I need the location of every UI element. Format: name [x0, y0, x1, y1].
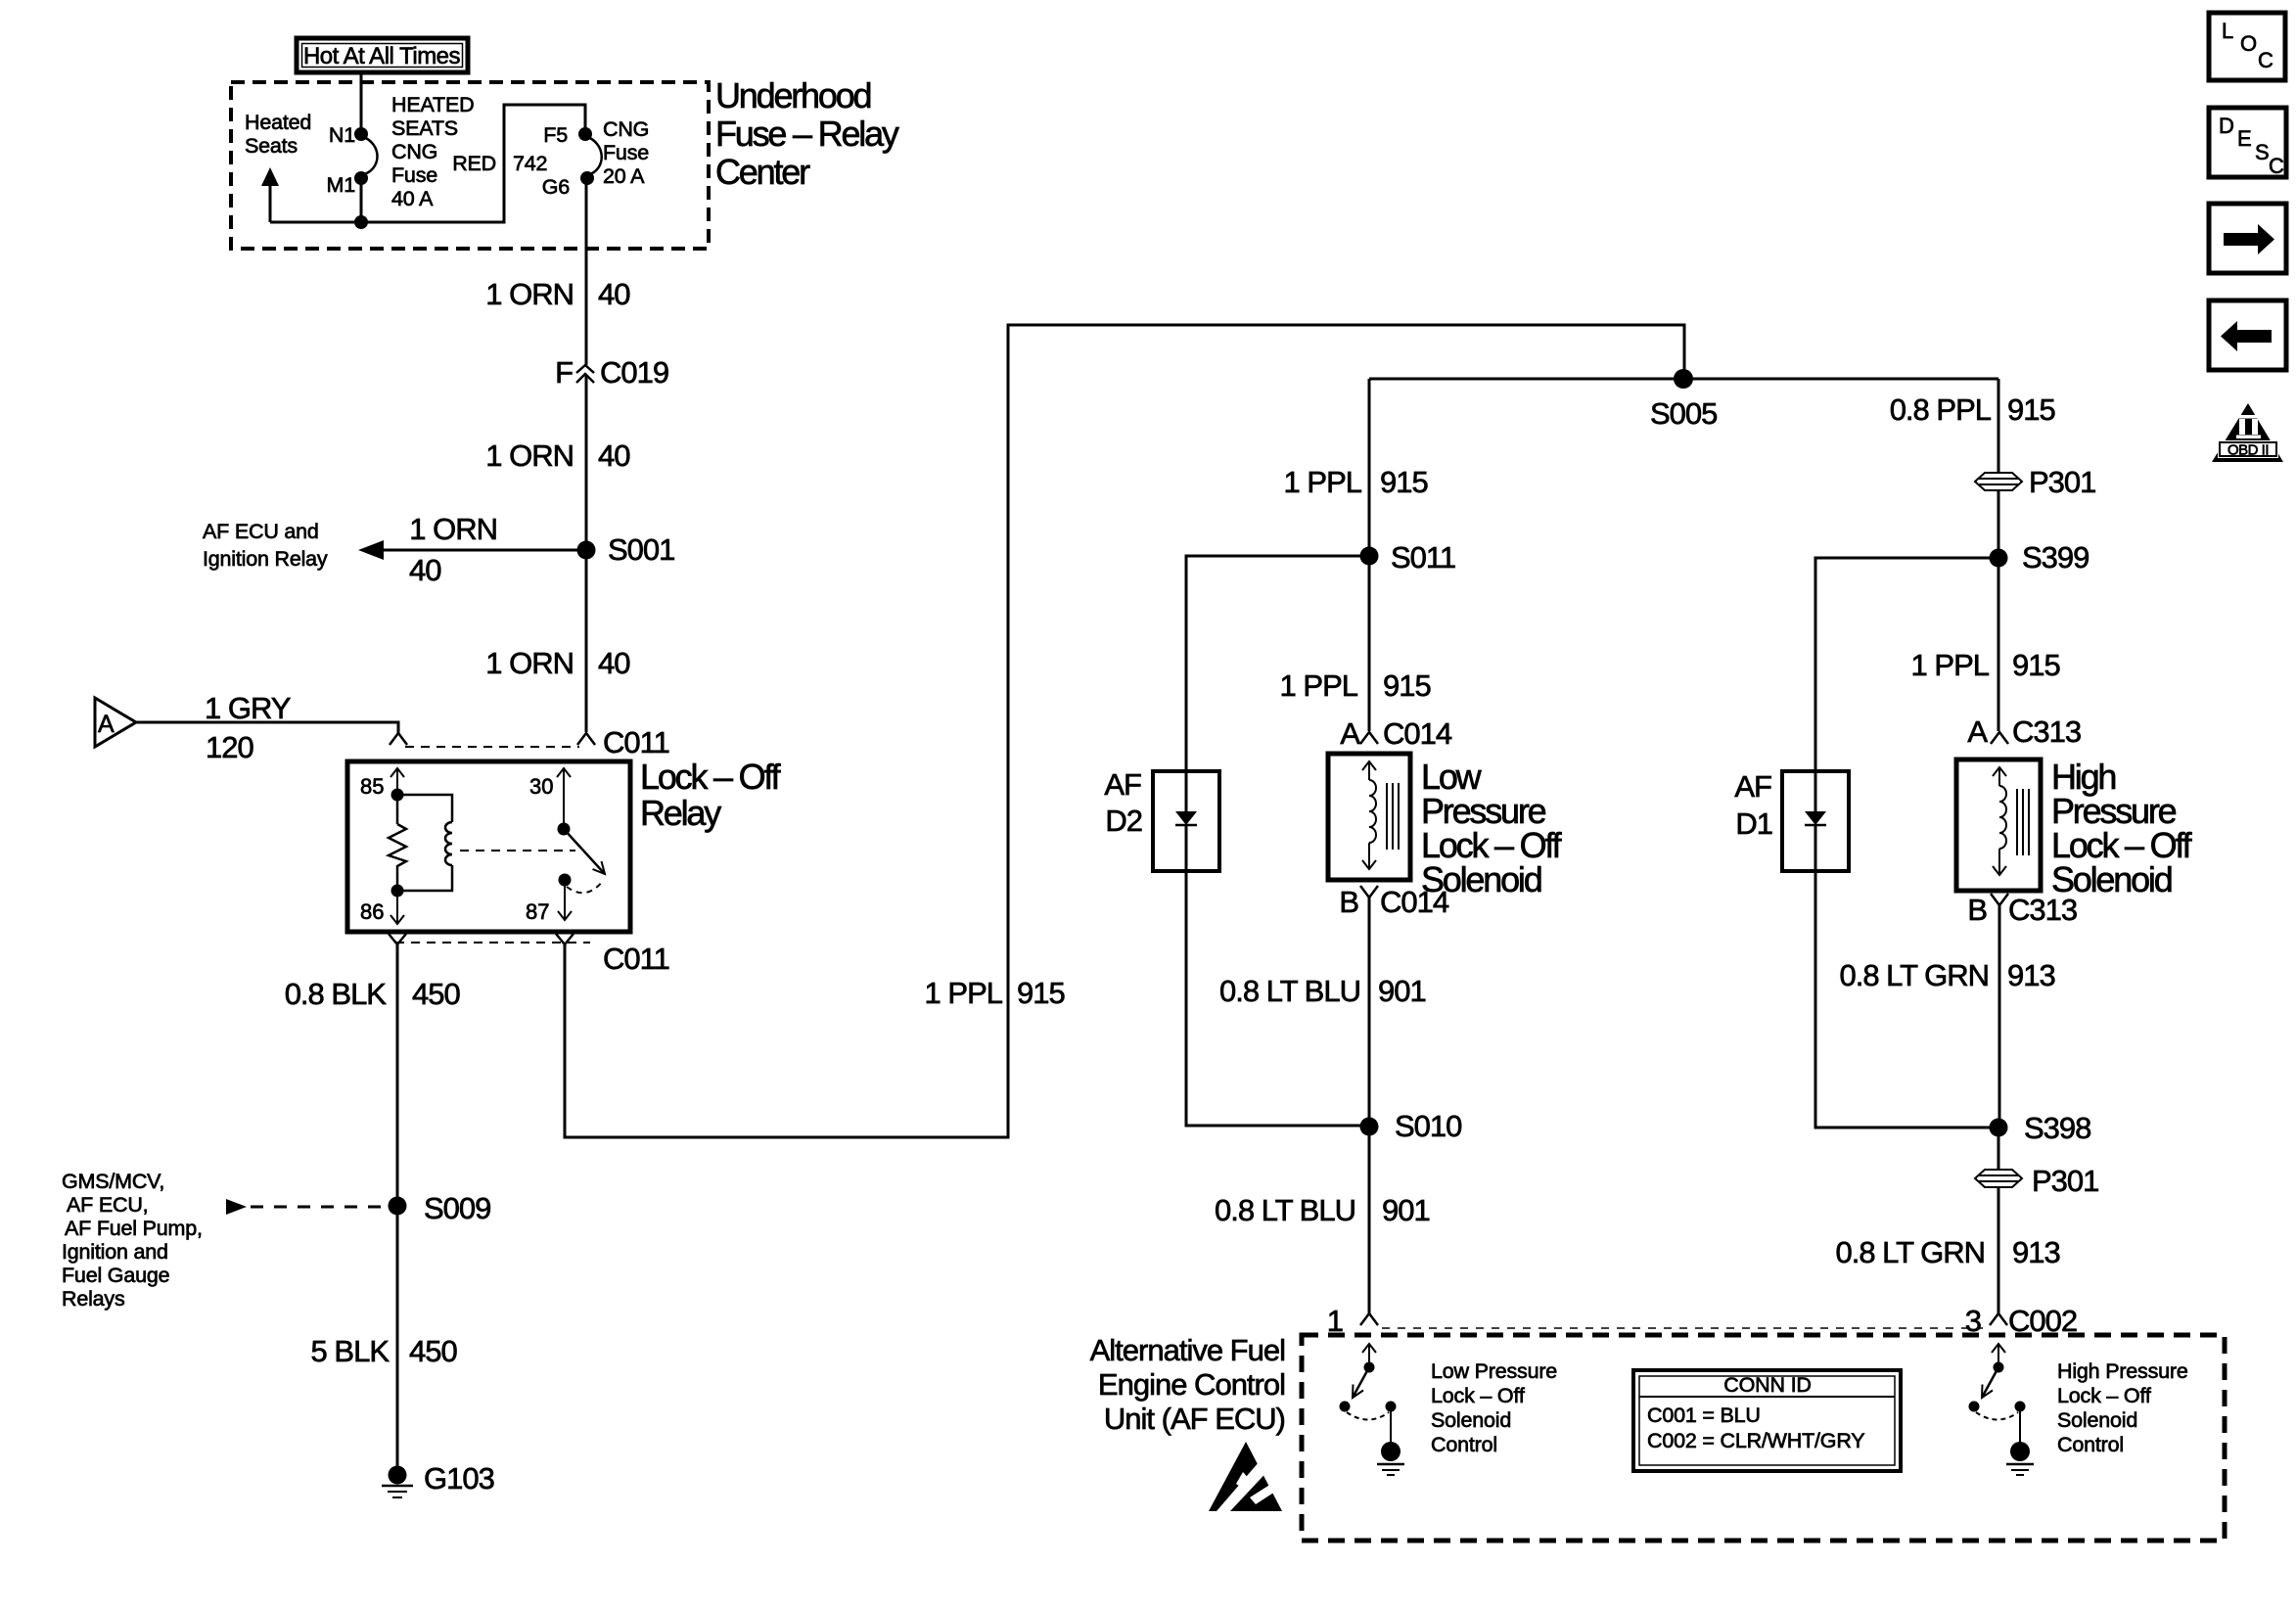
svg-text:Low Pressure: Low Pressure — [1431, 1359, 1557, 1383]
Low Pressure Lock-Off Solenoid label — [1421, 757, 1563, 899]
fuse HEATED SEATS CNG 40A (N1-M1) — [354, 127, 378, 185]
ground G103 — [382, 1461, 494, 1497]
svg-text:AF ECU and: AF ECU and — [203, 520, 319, 543]
wire label 1 PPL 915 (above C313) — [1911, 648, 2060, 682]
fuse CNG 20A (F5-G6) — [578, 127, 602, 185]
svg-text:GMS/MCV,: GMS/MCV, — [62, 1170, 164, 1193]
svg-text:Relay: Relay — [640, 793, 721, 833]
svg-text:CONN ID: CONN ID — [1723, 1373, 1811, 1397]
relay mechanical link (dashed) — [460, 850, 575, 852]
svg-text:RED: RED — [452, 152, 496, 175]
svg-text:Ignition and: Ignition and — [62, 1240, 168, 1264]
wire S005 to S011 — [1368, 379, 1371, 556]
AF ECU and Ignition Relay destination label — [203, 520, 328, 571]
svg-text:D1: D1 — [1735, 806, 1772, 841]
svg-text:G103: G103 — [424, 1461, 494, 1496]
svg-text:1 ORN: 1 ORN — [485, 646, 574, 680]
svg-text:C019: C019 — [600, 355, 668, 390]
node A reference triangle — [95, 698, 136, 747]
svg-text:AF: AF — [1734, 769, 1771, 804]
Lock-Off Relay box — [347, 761, 630, 932]
pass-through grommet P301 (lower) — [1975, 1164, 2098, 1198]
svg-text:B: B — [1339, 885, 1358, 919]
wire label 1 ORN / 40 (branch) — [409, 512, 497, 587]
diode D2 (AF) — [1104, 767, 1219, 871]
svg-text:CNG: CNG — [391, 140, 437, 163]
svg-text:915: 915 — [2007, 392, 2055, 427]
wire label 1 PPL 915 (above C014) — [1280, 668, 1431, 703]
svg-text:0.8 LT BLU: 0.8 LT BLU — [1215, 1193, 1355, 1227]
svg-text:Heated: Heated — [245, 111, 311, 134]
dashed branch wire into S009 — [226, 1199, 386, 1215]
svg-text:Lock – Off: Lock – Off — [2057, 1384, 2151, 1407]
svg-text:0.8 LT GRN: 0.8 LT GRN — [1835, 1235, 1985, 1269]
svg-text:Solenoid: Solenoid — [1431, 1408, 1511, 1432]
wire S005 bus (to S011 drop and S399 drop) — [1369, 378, 1998, 381]
splice S010 — [1360, 1109, 1463, 1143]
wire label 0.8 BLK 450 — [285, 977, 461, 1011]
Low Pressure Lock-Off Solenoid Control switch (AF ECU internal) — [1340, 1344, 1405, 1475]
svg-text:F5: F5 — [543, 123, 568, 147]
connector plane dashed line (C001/C002) — [1382, 1327, 1983, 1329]
svg-text:P301: P301 — [2029, 465, 2095, 499]
svg-text:S: S — [2255, 140, 2270, 164]
svg-text:P301: P301 — [2032, 1164, 2098, 1198]
svg-text:20 A: 20 A — [603, 164, 645, 188]
wire M1 down to bus — [360, 178, 363, 222]
High Pressure Lock-Off Solenoid Control label — [2057, 1359, 2188, 1456]
svg-text:Solenoid: Solenoid — [2057, 1408, 2137, 1432]
svg-text:0.8 LT GRN: 0.8 LT GRN — [1839, 958, 1989, 992]
svg-text:S009: S009 — [424, 1191, 490, 1225]
HEATED SEATS CNG Fuse 40 A value label — [391, 93, 474, 210]
svg-text:C001 = BLU: C001 = BLU — [1647, 1404, 1761, 1427]
wire P301 down to S399 — [1998, 490, 2000, 558]
Heated Seats label — [245, 111, 311, 158]
DESC navigation icon — [2209, 108, 2286, 178]
Underhood Fuse-Relay Center dashed box — [231, 82, 709, 249]
wire C313 B down to S398 (0.8 LT GRN 913) — [1998, 905, 2001, 1128]
svg-text:M1: M1 — [327, 173, 355, 197]
svg-text:Lock – Off: Lock – Off — [1431, 1384, 1525, 1407]
svg-text:87: 87 — [526, 899, 549, 924]
svg-text:915: 915 — [1017, 976, 1065, 1010]
svg-text:Ignition Relay: Ignition Relay — [203, 547, 328, 571]
svg-text:F: F — [555, 355, 573, 390]
splice S005 — [1650, 369, 1717, 431]
svg-text:AF Fuel Pump,: AF Fuel Pump, — [65, 1217, 203, 1240]
svg-text:Alternative Fuel: Alternative Fuel — [1090, 1333, 1285, 1367]
svg-text:30: 30 — [529, 774, 553, 799]
Low Pressure Lock-Off Solenoid coil — [1328, 754, 1410, 880]
wire label 0.8 LT GRN 913 (above S398) — [1839, 958, 2054, 992]
back arrow icon — [2209, 300, 2286, 370]
svg-text:Fuel Gauge: Fuel Gauge — [62, 1264, 169, 1287]
High Pressure Lock-Off Solenoid label — [2051, 757, 2193, 899]
pass-through grommet P301 (upper) — [1975, 465, 2095, 499]
connector C011 (top, pin 85 feed) — [390, 733, 407, 745]
svg-text:450: 450 — [412, 977, 460, 1011]
relay pin 85 — [360, 768, 404, 802]
svg-text:Underhood: Underhood — [715, 75, 871, 115]
wire label 5 BLK 450 — [311, 1334, 458, 1368]
svg-text:0.8 BLK: 0.8 BLK — [285, 977, 388, 1011]
svg-text:901: 901 — [1378, 974, 1426, 1008]
wire label 1 PPL 915 (above S011) — [1284, 465, 1428, 499]
svg-text:D: D — [2219, 114, 2234, 138]
wire C014 B down to S010 (0.8 LT BLU 901) — [1368, 898, 1371, 1127]
svg-text:0.8 PPL: 0.8 PPL — [1890, 392, 1992, 427]
relay pin 87 contact — [526, 874, 603, 925]
Hot At All Times feed box — [297, 38, 468, 72]
Alternative Fuel Engine Control Unit label — [1090, 1333, 1285, 1436]
svg-text:915: 915 — [2012, 648, 2060, 682]
bus wire from heated seats arrow to RED 742 riser — [270, 105, 585, 222]
svg-text:OBD II: OBD II — [2227, 442, 2269, 459]
connector C014 pin A — [1340, 716, 1452, 751]
svg-text:5 BLK: 5 BLK — [311, 1334, 390, 1368]
svg-text:Lock – Off: Lock – Off — [640, 757, 782, 797]
connector C011 (top, pin 30 feed) — [577, 725, 669, 759]
wire label 0.8 PPL 915 — [1890, 392, 2055, 427]
svg-text:C014: C014 — [1383, 716, 1452, 751]
wire S001 down to C011 — [585, 550, 588, 732]
wire label RED 742 — [452, 152, 547, 175]
wire label 1 GRY / 120 — [205, 691, 291, 764]
svg-text:1 PPL: 1 PPL — [925, 976, 1003, 1010]
svg-text:A: A — [1340, 716, 1360, 751]
splice S398 — [1990, 1111, 2091, 1145]
svg-text:1 ORN: 1 ORN — [485, 438, 574, 473]
svg-text:915: 915 — [1383, 668, 1431, 703]
wire label 1 ORN 40 (above C019) — [485, 277, 630, 311]
svg-text:Control: Control — [2057, 1433, 2124, 1456]
svg-text:Unit (AF ECU): Unit (AF ECU) — [1104, 1402, 1285, 1436]
svg-text:40: 40 — [598, 438, 630, 473]
connector C313 pin B — [1967, 893, 2077, 927]
svg-text:C002 = CLR/WHT/GRY: C002 = CLR/WHT/GRY — [1647, 1429, 1864, 1452]
wire S399 branch to diode D1 — [1815, 558, 1998, 771]
wire D2 down to S010 — [1186, 871, 1368, 1126]
svg-text:742: 742 — [513, 152, 547, 175]
CONN ID table — [1633, 1370, 1901, 1471]
wire S011 down to C014 A — [1368, 556, 1371, 731]
Underhood Fuse-Relay Center label — [715, 75, 899, 192]
connector C014 pin B — [1339, 885, 1449, 919]
svg-text:40: 40 — [598, 277, 630, 311]
svg-text:86: 86 — [360, 899, 384, 924]
AF ECU dashed box — [1302, 1335, 2225, 1541]
relay connector face dashed line (top) — [405, 746, 579, 748]
svg-text:S399: S399 — [2022, 540, 2089, 575]
wire label 0.8 LT BLU 901 (above S010) — [1219, 974, 1426, 1008]
svg-text:Fuse – Relay: Fuse – Relay — [715, 114, 899, 154]
svg-text:Seats: Seats — [245, 134, 298, 158]
wire label 0.8 LT GRN 913 (below P301) — [1835, 1235, 2059, 1269]
wire C011 pin87 route to S005 (1 PPL 915) — [565, 325, 1684, 1137]
svg-text:450: 450 — [409, 1334, 457, 1368]
svg-text:SEATS: SEATS — [391, 116, 458, 140]
svg-text:Fuse: Fuse — [391, 163, 437, 187]
wire label 0.8 LT BLU 901 (below S010) — [1215, 1193, 1430, 1227]
wire from node A to C011 (1 GRY 120) — [136, 722, 398, 734]
wire G6 down to C019 (1 ORN 40) — [585, 178, 588, 365]
svg-text:40 A: 40 A — [391, 187, 434, 210]
svg-text:O: O — [2240, 31, 2257, 56]
svg-text:40: 40 — [409, 553, 441, 587]
svg-text:S005: S005 — [1650, 396, 1717, 431]
ESD sensitivity symbol — [1209, 1442, 1282, 1511]
connector C011 (bottom, pin 87) — [556, 934, 669, 976]
Lock-Off Relay label — [640, 757, 782, 833]
svg-text:913: 913 — [2012, 1235, 2060, 1269]
wire S010 down to C001 (0.8 LT BLU 901) — [1368, 1127, 1371, 1313]
CNG Fuse 20 A value label — [603, 117, 649, 188]
svg-text:0.8 LT BLU: 0.8 LT BLU — [1219, 974, 1360, 1008]
svg-text:HEATED: HEATED — [391, 93, 474, 116]
wire P301 down to C002 (0.8 LT GRN 913) — [1998, 1187, 2000, 1313]
svg-text:Center: Center — [715, 152, 810, 192]
wire label 1 ORN 40 (above S001) — [485, 438, 630, 473]
svg-text:Hot At All Times: Hot At All Times — [303, 43, 461, 69]
splice S399 — [1990, 540, 2089, 575]
svg-text:S398: S398 — [2024, 1111, 2090, 1145]
svg-text:C313: C313 — [2012, 714, 2081, 749]
splice S011 — [1360, 540, 1456, 575]
svg-text:1 PPL: 1 PPL — [1280, 668, 1358, 703]
svg-text:L: L — [2222, 19, 2233, 43]
svg-text:1 ORN: 1 ORN — [409, 512, 497, 546]
relay coil resistor (85-86) — [389, 795, 406, 898]
Heated Seats feed arrow — [261, 167, 279, 222]
svg-text:Fuse: Fuse — [603, 141, 649, 164]
connector C019 — [555, 355, 668, 390]
splice S001 — [577, 532, 675, 567]
connector C011 (bottom, pin 86) — [389, 934, 406, 944]
svg-text:CNG: CNG — [603, 117, 649, 141]
wire D1 down to S398 — [1815, 871, 1998, 1128]
svg-text:Relays: Relays — [62, 1287, 125, 1311]
wire S005 bus down to P301 (0.8 PPL 915) — [1998, 379, 2000, 473]
branch wire to AF ECU and Ignition Relay (arrow) — [358, 540, 586, 560]
wire C011 pin86 down to S009 (0.8 BLK 450) — [396, 944, 399, 1206]
relay coil (85-86) — [397, 795, 452, 891]
svg-text:E: E — [2237, 126, 2252, 151]
svg-text:C: C — [2258, 48, 2273, 72]
LOC navigation icon — [2209, 13, 2285, 80]
wire C019 down to S001 — [585, 375, 588, 550]
svg-text:B: B — [1967, 893, 1987, 927]
svg-text:Control: Control — [1431, 1433, 1497, 1456]
connector C001 pin 1 — [1327, 1304, 1378, 1338]
diode D1 (AF) — [1734, 769, 1849, 871]
svg-text:AF: AF — [1104, 767, 1141, 802]
svg-text:1 PPL: 1 PPL — [1911, 648, 1990, 682]
svg-text:85: 85 — [360, 774, 384, 799]
svg-text:AF ECU,: AF ECU, — [67, 1193, 148, 1217]
svg-text:C: C — [2269, 154, 2284, 178]
svg-text:C011: C011 — [603, 725, 669, 759]
wire label 1 ORN 40 (above C011) — [485, 646, 630, 680]
svg-text:C313: C313 — [2008, 893, 2077, 927]
svg-text:901: 901 — [1382, 1193, 1430, 1227]
OBD II symbol — [2212, 403, 2283, 462]
svg-text:C011: C011 — [603, 942, 669, 976]
svg-text:N1: N1 — [329, 123, 355, 147]
splice S009 — [389, 1191, 491, 1225]
svg-text:1 PPL: 1 PPL — [1284, 465, 1362, 499]
svg-text:C014: C014 — [1380, 885, 1449, 919]
svg-text:High Pressure: High Pressure — [2057, 1359, 2188, 1383]
wire S399 down to C313 A (1 PPL 915) — [1998, 558, 2000, 731]
svg-text:1 GRY: 1 GRY — [205, 691, 291, 725]
relay connector face dashed line (bottom) — [395, 942, 590, 944]
svg-text:A: A — [98, 711, 115, 738]
svg-text:120: 120 — [206, 730, 253, 764]
forward arrow icon — [2209, 204, 2286, 273]
svg-text:D2: D2 — [1105, 804, 1142, 838]
svg-text:A: A — [1967, 714, 1988, 749]
relay pin 30 — [529, 768, 571, 836]
wire S398 down to P301 (lower) — [1998, 1128, 2000, 1170]
relay switch arm (30-87) — [564, 829, 605, 874]
High Pressure Lock-Off Solenoid Control switch (AF ECU internal) — [1969, 1344, 2035, 1475]
connector C002 pin 3 — [1965, 1304, 2077, 1338]
svg-text:S001: S001 — [608, 532, 674, 567]
svg-text:S010: S010 — [1395, 1109, 1462, 1143]
svg-text:G6: G6 — [542, 175, 571, 199]
svg-text:1 ORN: 1 ORN — [485, 277, 574, 311]
svg-text:Engine Control: Engine Control — [1098, 1367, 1285, 1402]
wire S009 down to G103 (5 BLK 450) — [396, 1206, 399, 1475]
svg-text:915: 915 — [1380, 465, 1428, 499]
Low Pressure Lock-Off Solenoid Control label — [1431, 1359, 1557, 1456]
wire S011 branch to diode D2 — [1186, 556, 1369, 771]
wire label 1 PPL 915 (riser) — [925, 976, 1065, 1010]
connector C313 pin A — [1967, 714, 2081, 749]
svg-text:913: 913 — [2007, 958, 2055, 992]
relay pin 86 — [360, 891, 404, 924]
junction on bus below M1 — [354, 215, 368, 229]
High Pressure Lock-Off Solenoid coil — [1956, 759, 2041, 891]
svg-text:S011: S011 — [1391, 540, 1455, 575]
GMS/MCV destination label — [62, 1170, 203, 1311]
wire from Hot At All Times to fuse N1 — [360, 72, 363, 130]
svg-text:40: 40 — [598, 646, 630, 680]
